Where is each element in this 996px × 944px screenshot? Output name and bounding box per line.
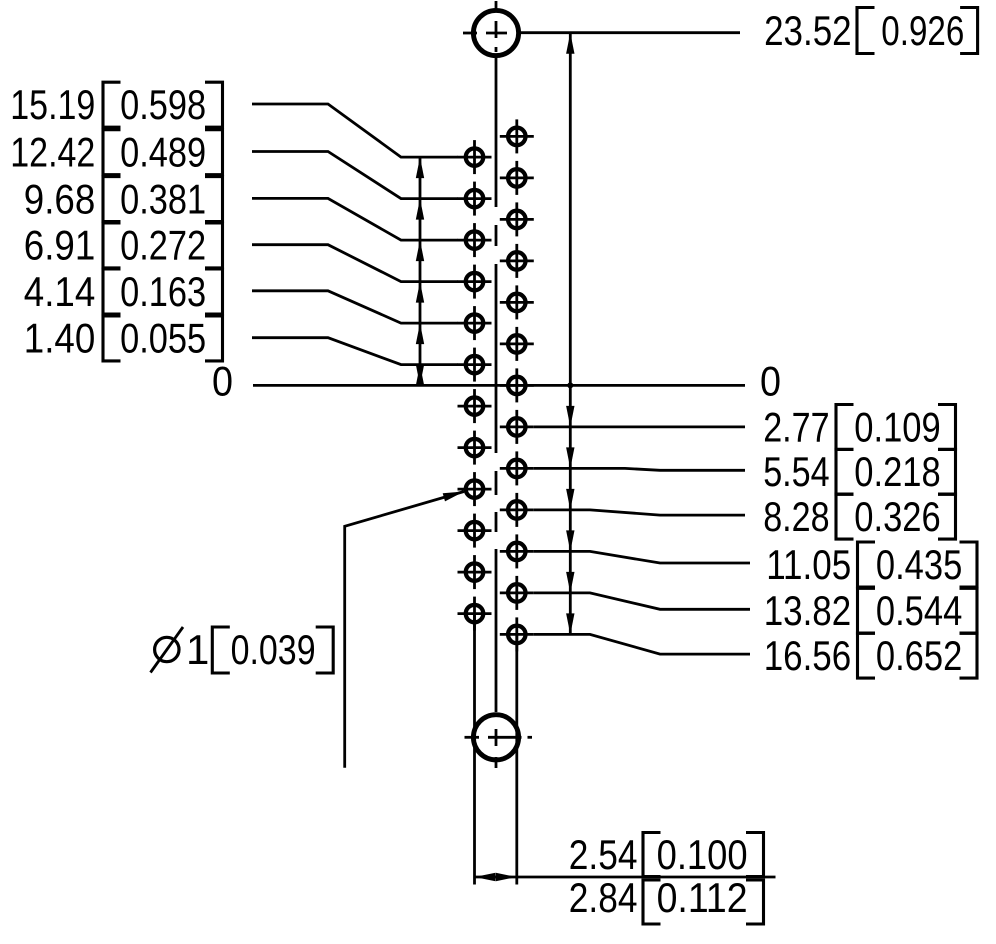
dimension label 5.54 [0.218] <box>534 448 956 495</box>
pin hole left column row 12 <box>458 597 492 631</box>
dimension label 9.68 [0.381] <box>24 175 458 240</box>
pin hole right column row 5 <box>500 285 534 319</box>
dimension label 4.14 [0.163] <box>24 268 458 323</box>
zero datum line <box>253 384 745 387</box>
right ordinate dimension line <box>566 33 574 635</box>
pin hole left column row 11 <box>458 555 492 589</box>
dimension label 15.19 [0.598] <box>10 81 458 157</box>
pin hole right column row 2 <box>500 161 534 195</box>
dimension label 11.05 [0.435] <box>534 541 977 588</box>
pin hole left column row 5 <box>458 306 492 340</box>
svg-text:0.039: 0.039 <box>231 626 316 673</box>
vertical centerline <box>495 1 498 768</box>
mounting hole bottom <box>465 715 533 760</box>
pin hole left column row 1 <box>458 140 492 174</box>
svg-text:6.91: 6.91 <box>24 222 96 269</box>
pin hole right column row 9 <box>500 451 534 485</box>
svg-text:16.56: 16.56 <box>764 632 852 679</box>
svg-text:11.05: 11.05 <box>766 541 851 588</box>
dimension label 2.77 [0.109] <box>534 403 956 450</box>
pin hole right column row 4 <box>500 244 534 278</box>
pin hole left column row 6 <box>458 348 492 382</box>
svg-text:0.435: 0.435 <box>876 541 962 588</box>
svg-text:12.42: 12.42 <box>10 129 95 176</box>
pin hole right column row 6 <box>500 327 534 361</box>
pin hole right column row 7 <box>500 368 534 402</box>
pin hole left column row 2 <box>458 182 492 216</box>
pin hole left column row 8 <box>458 431 492 465</box>
svg-text:0.272: 0.272 <box>120 222 206 269</box>
dimension label 2.54 [0.100] <box>569 831 764 878</box>
pitch dimension line 2.54/2.84 <box>475 873 776 881</box>
pin hole right column row 11 <box>500 534 534 568</box>
pin hole left column row 9 <box>458 472 492 506</box>
dimension label 13.82 [0.544] <box>534 587 977 634</box>
svg-text:1.40: 1.40 <box>24 315 96 362</box>
svg-text:5.54: 5.54 <box>763 448 829 495</box>
pin hole right column row 13 <box>500 617 534 651</box>
pin hole right column row 8 <box>500 410 534 444</box>
dimension label 12.42 [0.489] <box>10 129 458 199</box>
svg-text:0.489: 0.489 <box>120 129 206 176</box>
mounting hole top <box>463 10 519 55</box>
svg-text:8.28: 8.28 <box>763 493 829 540</box>
svg-text:0: 0 <box>760 357 781 404</box>
svg-text:2.84: 2.84 <box>569 874 638 921</box>
pin hole right column row 1 <box>500 119 534 153</box>
svg-text:0: 0 <box>212 357 233 404</box>
pin hole right column row 12 <box>500 576 534 610</box>
svg-text:0.218: 0.218 <box>854 448 940 495</box>
pin hole left column row 3 <box>458 223 492 257</box>
dimension label 1.40 [0.055] <box>24 315 458 365</box>
svg-text:2.77: 2.77 <box>763 403 829 450</box>
svg-text:4.14: 4.14 <box>24 268 96 315</box>
pin hole right column row 3 <box>500 202 534 236</box>
leader line for diameter callout <box>345 492 464 768</box>
pin hole right column row 10 <box>500 493 534 527</box>
svg-text:0.926: 0.926 <box>881 7 964 54</box>
svg-text:15.19: 15.19 <box>10 81 95 128</box>
pin hole left column row 7 <box>458 389 492 423</box>
pin hole left column row 10 <box>458 514 492 548</box>
dimension label 23.52 [0.926] <box>521 7 978 54</box>
svg-text:2.54: 2.54 <box>569 831 638 878</box>
dimension label 6.91 [0.272] <box>24 222 458 282</box>
dimension label 2.84 [0.112] <box>569 874 764 924</box>
svg-text:0.326: 0.326 <box>854 493 940 540</box>
svg-text:0.163: 0.163 <box>120 268 206 315</box>
dimension label 16.56 [0.652] <box>534 632 977 679</box>
dimension label 8.28 [0.326] <box>534 493 956 540</box>
svg-text:0.381: 0.381 <box>120 175 206 222</box>
svg-text:1: 1 <box>186 626 209 673</box>
svg-text:0.652: 0.652 <box>876 632 962 679</box>
svg-text:0.100: 0.100 <box>657 831 748 878</box>
extension line right column <box>515 635 518 885</box>
diameter callout (phi)1 [0.039] <box>151 492 465 768</box>
extension line left column <box>473 614 476 885</box>
svg-text:0.055: 0.055 <box>120 315 206 362</box>
svg-text:0.598: 0.598 <box>120 81 206 128</box>
svg-text:0.544: 0.544 <box>876 587 962 634</box>
svg-text:9.68: 9.68 <box>24 175 96 222</box>
svg-text:23.52: 23.52 <box>764 7 852 54</box>
pin hole left column row 4 <box>458 265 492 299</box>
left ordinate dimension line <box>416 157 424 386</box>
svg-text:0.109: 0.109 <box>854 403 940 450</box>
svg-text:0.112: 0.112 <box>657 874 748 921</box>
svg-text:13.82: 13.82 <box>764 587 852 634</box>
